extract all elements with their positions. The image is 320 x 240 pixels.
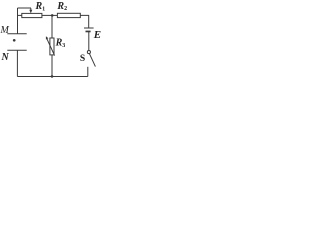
slider arrow shaft onto R1 xyxy=(30,8,32,11)
wire N plate down to bottom corner xyxy=(16,50,18,76)
wire battery to switch circle xyxy=(88,32,90,50)
wire top right to corner and down to battery xyxy=(80,15,88,28)
wire R1 left stub xyxy=(18,14,22,16)
resistor R3 box xyxy=(50,38,54,55)
wire R3 lower feed xyxy=(51,55,53,77)
wire slider feed horizontal xyxy=(18,7,32,9)
resistor R1 box xyxy=(22,13,42,17)
charge dot between plates xyxy=(13,39,16,42)
plate N xyxy=(7,49,26,51)
wire switch lower contact down to corner xyxy=(87,67,89,77)
svg-text:S: S xyxy=(80,54,85,64)
wire bottom xyxy=(17,76,87,78)
wire left vertical from slider feed down to plate M xyxy=(17,8,19,34)
plate M xyxy=(7,33,26,35)
resistor R2 box xyxy=(57,13,80,17)
rheostat R3 arrowhead xyxy=(46,36,49,39)
battery E long plate xyxy=(84,27,94,29)
background xyxy=(0,0,102,84)
switch circle xyxy=(87,51,90,54)
svg-text:M: M xyxy=(0,25,10,36)
rheostat R3 diagonal arrow line xyxy=(47,39,55,56)
slider arrowhead xyxy=(29,10,32,14)
svg-text:E: E xyxy=(93,29,101,41)
svg-text:N: N xyxy=(1,52,10,63)
battery E short plate xyxy=(86,31,91,33)
wire top middle between R1 and R2 xyxy=(42,14,58,16)
switch lever xyxy=(90,54,96,67)
node dot bottom junction xyxy=(51,75,54,78)
wire R3 upper feed xyxy=(51,15,53,38)
node dot top junction xyxy=(51,14,54,17)
